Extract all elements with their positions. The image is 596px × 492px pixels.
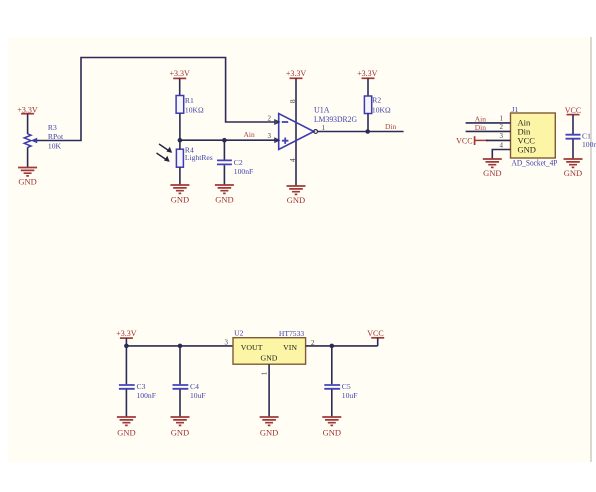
capacitor C3	[119, 385, 135, 389]
wire J1 pin2 Din	[466, 130, 511, 132]
resistor R2	[364, 96, 371, 114]
svg-text:4: 4	[288, 158, 297, 162]
wire J1 pin4 to ground	[492, 150, 510, 160]
ground GND (U1A)	[287, 186, 306, 205]
wire R3 wiper to U1A pin2	[37, 58, 278, 141]
svg-text:1: 1	[260, 371, 269, 375]
svg-text:GND: GND	[261, 354, 278, 363]
svg-text:C4: C4	[190, 382, 199, 391]
svg-text:+3.3V: +3.3V	[357, 69, 378, 78]
ground GND (C5)	[322, 417, 341, 437]
ground GND (U2)	[260, 417, 279, 437]
wire Ain node to U1A pin3	[180, 139, 278, 141]
label U1A LM393DR2G	[314, 106, 357, 124]
svg-text:VOUT: VOUT	[241, 343, 263, 352]
svg-text:10uF: 10uF	[342, 391, 358, 400]
svg-text:LightRes: LightRes	[185, 153, 213, 162]
svg-text:GND: GND	[483, 168, 501, 178]
svg-text:C5: C5	[342, 382, 351, 391]
power +3.3V (R2 branch)	[357, 69, 378, 96]
svg-text:VCC: VCC	[367, 329, 383, 338]
svg-text:C2: C2	[234, 158, 243, 167]
wire U2 GND pin to ground	[268, 364, 270, 417]
svg-text:LM393DR2G: LM393DR2G	[314, 115, 357, 124]
svg-text:10uF: 10uF	[190, 391, 206, 400]
label R1 10KΩ	[185, 96, 204, 114]
svg-text:Din: Din	[385, 122, 397, 131]
junction node C3	[124, 344, 129, 349]
svg-text:R3: R3	[48, 123, 57, 132]
power VCC (J1 pin3)	[456, 136, 488, 145]
label C2 100nF	[234, 158, 253, 176]
wire J1 pin1 Ain	[466, 122, 511, 124]
power +3.3V (U1A supply)	[286, 69, 307, 78]
svg-text:J1: J1	[512, 105, 519, 114]
wire U2 VIN to VCC	[306, 345, 378, 347]
junction node R1/R4	[178, 138, 183, 143]
svg-text:VIN: VIN	[283, 343, 297, 352]
ground GND (C2)	[215, 185, 234, 204]
svg-text:R1: R1	[185, 96, 194, 105]
svg-text:100nF: 100nF	[234, 167, 253, 176]
ground GND (C1)	[564, 159, 583, 178]
power +3.3V (R3 branch)	[17, 105, 38, 134]
svg-text:U1A: U1A	[314, 106, 330, 115]
wire R4 bottom to ground	[179, 167, 181, 185]
svg-text:10KΩ: 10KΩ	[372, 106, 391, 115]
svg-text:GND: GND	[260, 427, 278, 437]
junction node R2/output	[365, 129, 370, 134]
junction node C5	[330, 344, 335, 349]
wire U1A output to Din	[318, 131, 404, 133]
svg-text:100nF: 100nF	[582, 140, 596, 149]
wire C2 top	[223, 140, 225, 159]
wire C1 bottom to ground	[572, 139, 574, 159]
photoresistor R4	[157, 144, 184, 167]
label R2 10KΩ	[372, 95, 391, 114]
svg-text:GND: GND	[171, 427, 189, 437]
junction node C4	[178, 344, 183, 349]
power VCC (regulator input)	[367, 329, 384, 346]
wire +3.3V rail to U2 VOUT	[126, 345, 233, 347]
svg-text:GND: GND	[323, 427, 341, 437]
svg-text:4: 4	[500, 141, 504, 149]
wire C3 bottom to ground	[125, 390, 127, 417]
svg-text:+3.3V: +3.3V	[286, 69, 307, 78]
svg-text:1: 1	[500, 115, 504, 123]
svg-text:VCC: VCC	[565, 106, 581, 115]
svg-text:1: 1	[322, 124, 326, 132]
label R4 LightRes	[185, 145, 213, 162]
svg-text:U2: U2	[234, 328, 243, 337]
svg-text:3: 3	[268, 132, 272, 140]
wire C3 top	[125, 346, 127, 384]
wire C5 top	[331, 346, 333, 384]
svg-text:2: 2	[268, 114, 272, 122]
power +3.3V (regulator output)	[116, 329, 137, 346]
svg-text:8: 8	[288, 99, 297, 103]
svg-text:GND: GND	[564, 168, 582, 178]
connector J1 AD_Socket_4P	[511, 113, 556, 158]
ground GND (R4)	[170, 185, 189, 204]
label C4 10uF	[190, 382, 206, 400]
svg-text:AD_Socket_4P: AD_Socket_4P	[512, 159, 558, 168]
svg-text:3: 3	[225, 339, 229, 347]
svg-text:Ain: Ain	[244, 130, 256, 139]
wire J1 pin3 VCC	[486, 139, 511, 141]
svg-text:10KΩ: 10KΩ	[185, 106, 204, 115]
svg-text:GND: GND	[287, 195, 305, 205]
svg-text:GND: GND	[171, 194, 189, 204]
label R3 designator	[48, 123, 64, 151]
svg-text:GND: GND	[518, 144, 536, 154]
svg-text:2: 2	[311, 339, 315, 347]
svg-text:+3.3V: +3.3V	[170, 69, 191, 78]
svg-text:C3: C3	[137, 382, 146, 391]
junction node C2	[222, 138, 227, 143]
capacitor C5	[324, 385, 340, 389]
ground GND (C3)	[117, 417, 136, 437]
ground GND (R3)	[18, 168, 37, 187]
ground GND (C4)	[171, 417, 190, 437]
label C1 100nF	[582, 132, 596, 150]
svg-text:GND: GND	[117, 427, 135, 437]
wire C5 bottom to ground	[331, 390, 333, 417]
wire C2 bottom to ground	[223, 165, 225, 185]
svg-text:10K: 10K	[48, 141, 62, 150]
svg-text:GND: GND	[18, 177, 36, 187]
svg-text:GND: GND	[215, 194, 233, 204]
label C5 10uF	[342, 382, 358, 400]
wire R2 bottom to output	[367, 114, 369, 132]
op-amp U1A LM393DR2G	[275, 114, 318, 150]
wire R3 bottom to ground	[27, 147, 29, 167]
wire R1 bottom to Ain node	[179, 113, 181, 140]
ground GND (J1)	[483, 159, 502, 178]
power VCC (C1)	[565, 106, 581, 134]
wire R4 top	[179, 140, 181, 149]
regulator U2 HT7533	[233, 338, 306, 365]
resistor R1	[176, 96, 184, 114]
capacitor C1	[566, 135, 581, 139]
wire C4 top	[179, 346, 181, 384]
svg-text:R2: R2	[372, 95, 381, 104]
svg-text:VCC: VCC	[456, 137, 472, 146]
svg-text:100nF: 100nF	[137, 391, 156, 400]
wire U1A pin8 supply	[295, 78, 297, 186]
svg-text:2: 2	[500, 123, 504, 131]
capacitor C4	[173, 385, 189, 389]
power +3.3V (R1 branch)	[170, 69, 191, 96]
svg-text:Din: Din	[475, 123, 487, 132]
capacitor C2	[217, 160, 232, 164]
label C3 100nF	[137, 382, 156, 400]
svg-text:+3.3V: +3.3V	[116, 329, 137, 338]
potentiometer R3	[24, 134, 37, 148]
wire C4 bottom to ground	[179, 390, 181, 417]
svg-text:3: 3	[500, 132, 504, 140]
svg-text:HT7533: HT7533	[279, 329, 305, 338]
